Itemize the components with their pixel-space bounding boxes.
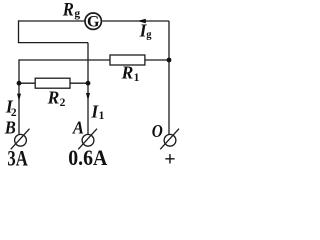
arrow I1 (points down) <box>86 93 90 101</box>
terminal A <box>78 129 97 150</box>
wire R2 row right <box>70 82 88 84</box>
svg-text:R: R <box>121 62 134 82</box>
wire R1 row left <box>19 59 110 61</box>
arrow I2 (points down) <box>17 94 21 102</box>
arrow Ig (points left on top wire) <box>137 19 146 24</box>
svg-text:B: B <box>4 118 16 137</box>
wire right vertical <box>168 21 170 135</box>
junction dot left (R2 row) <box>17 81 22 86</box>
resistor R1 <box>110 55 145 65</box>
terminal O <box>160 129 179 150</box>
wire R2 row left <box>19 82 35 84</box>
wire R1 row right <box>145 59 169 61</box>
junction dot right (node A top) <box>86 81 91 86</box>
wire top left segment <box>19 20 85 22</box>
svg-text:3A: 3A <box>7 146 28 171</box>
svg-text:1: 1 <box>134 72 140 84</box>
svg-text:G: G <box>87 14 100 31</box>
wire second row <box>18 42 88 44</box>
svg-text:0.6A: 0.6A <box>68 145 107 170</box>
wire left vertical upper <box>18 20 20 42</box>
svg-text:R: R <box>62 0 74 20</box>
galvanometer G circle <box>85 13 101 29</box>
wire mid vertical <box>87 43 89 135</box>
svg-text:O: O <box>152 121 163 141</box>
svg-text:g: g <box>146 29 152 40</box>
svg-text:2: 2 <box>60 97 66 109</box>
svg-text:1: 1 <box>99 110 105 122</box>
svg-text:+: + <box>164 149 175 171</box>
svg-text:R: R <box>47 87 60 107</box>
wire top right segment <box>102 20 169 22</box>
wire left vertical lower <box>18 59 20 134</box>
terminal B <box>11 129 30 150</box>
resistor R2 <box>35 78 70 88</box>
svg-text:A: A <box>72 118 84 137</box>
svg-text:g: g <box>74 8 80 20</box>
junction dot right vertical (R1) <box>167 58 172 63</box>
